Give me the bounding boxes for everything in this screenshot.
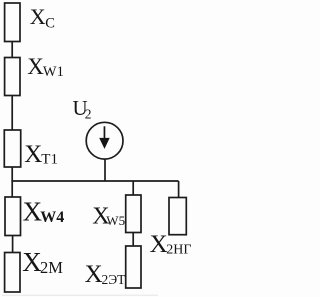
wire X_W1 to X_T1: [11, 96, 13, 131]
svg-text:C: C: [45, 15, 55, 31]
svg-text:X: X: [30, 4, 46, 29]
bus (horizontal node line): [11, 180, 178, 182]
svg-text:2: 2: [85, 107, 92, 122]
wire X_W4 to X_2M: [12, 236, 14, 253]
reactance X_C box: [5, 3, 20, 42]
wire X_W5 to X_2ET: [132, 233, 134, 247]
svg-text:X: X: [150, 231, 168, 258]
reactance X_W1 box: [5, 58, 20, 96]
wire bus to X_W5: [132, 181, 134, 195]
wire X_C to X_W1: [11, 42, 13, 58]
reactance X_T1 box: [4, 130, 20, 167]
svg-text:W5: W5: [106, 213, 125, 228]
wire source U2 to bus: [104, 159, 106, 181]
reactance X_2NG box: [169, 198, 186, 235]
wire bus to X_2NG: [178, 181, 180, 198]
reactance X_2ET box: [126, 246, 141, 288]
svg-text:X: X: [85, 261, 103, 288]
source arrow: [99, 126, 110, 149]
reactance X_W5 box: [126, 195, 141, 233]
svg-text:W4: W4: [40, 209, 64, 226]
svg-text:W1: W1: [43, 64, 64, 80]
reactance X_W4 box: [5, 197, 21, 236]
wire bus to X_W4: [11, 181, 13, 197]
svg-text:X: X: [24, 141, 42, 168]
reactance X_2M box: [5, 253, 20, 293]
svg-text:T1: T1: [41, 152, 58, 168]
faint scan shadow at bottom edge: [2, 294, 158, 296]
svg-text:2М: 2М: [40, 258, 63, 277]
current source U2 circle: [86, 122, 123, 159]
wire X_T1 to bus: [11, 167, 13, 181]
svg-text:2ЭТ: 2ЭТ: [102, 272, 127, 287]
svg-text:2НГ: 2НГ: [166, 243, 191, 258]
svg-text:X: X: [27, 54, 44, 79]
